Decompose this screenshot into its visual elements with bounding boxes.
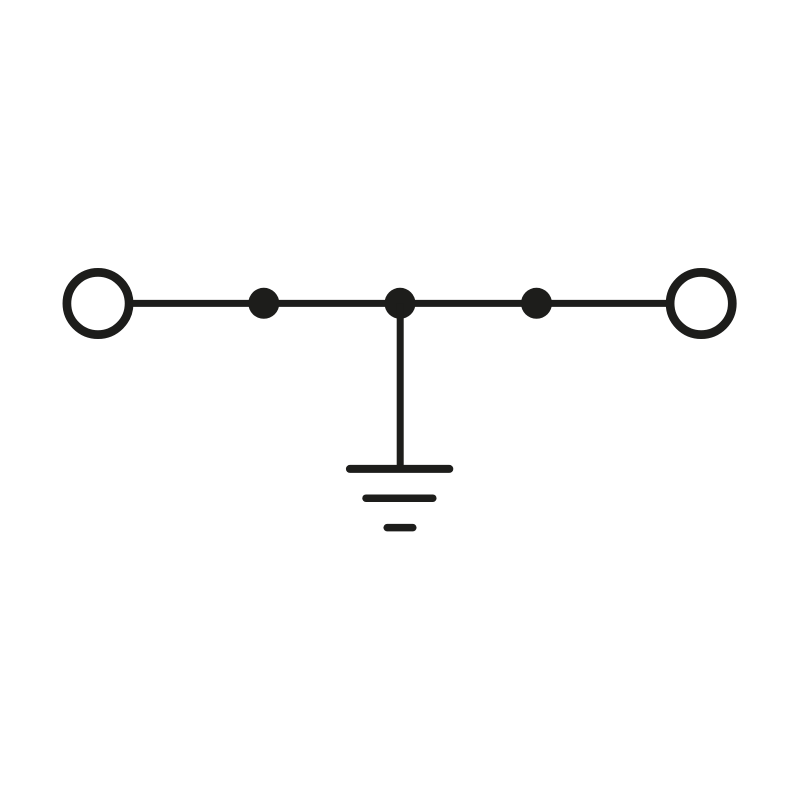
wire vertical to ground xyxy=(397,303,404,469)
junction dot center (node to ground) xyxy=(385,288,416,319)
junction dot right xyxy=(521,288,552,319)
terminal circle left (connection point 1) xyxy=(67,272,129,334)
terminal circle right (connection point 2) xyxy=(670,272,732,334)
ground symbol (earth) xyxy=(350,469,449,528)
wire horizontal bus xyxy=(131,300,667,307)
junction dot left xyxy=(248,288,279,319)
